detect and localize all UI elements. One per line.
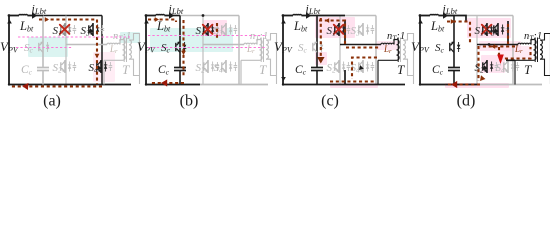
transformer T core (d): [535, 38, 537, 63]
transformer T primary winding (d): [534, 40, 537, 61]
label S1 (d): [475, 25, 484, 38]
label iLbt (d): [443, 2, 458, 17]
current arrow 4 (d): [480, 75, 485, 81]
transformer T primary winding (c): [397, 40, 400, 61]
wire bottom rail (a): [9, 84, 131, 86]
wire bridge left leg (d): [476, 16, 478, 85]
label S3 (c): [351, 25, 361, 38]
current arrow iLbt (c): [306, 12, 317, 18]
svg-text:(c): (c): [321, 93, 339, 110]
label Lr (d): [514, 44, 523, 55]
current path dashed segment 3 (c): [346, 46, 380, 48]
label iLbt (a): [32, 2, 47, 17]
current arrow 2 (c): [317, 57, 325, 64]
annotation magenta dashed 1 (a): [18, 36, 130, 38]
highlight region 3 (a): [93, 52, 115, 82]
current arrow 3 (b): [161, 79, 167, 86]
highlight region 1 (c): [315, 17, 355, 38]
wire bridge mid rail (b): [203, 44, 244, 46]
current arrow 1 (a): [45, 17, 49, 22]
transformer T secondary winding (a): [129, 40, 131, 59]
transistor S1 (b): [203, 23, 219, 36]
wire active segment 2 (c): [344, 20, 346, 45]
current arrow 2 (a): [95, 54, 100, 58]
transistor S2 (a): [61, 60, 76, 73]
current arrow 2 (d): [491, 44, 495, 49]
wire primary return (b): [241, 60, 260, 84]
wire bottom rail (b): [146, 84, 268, 86]
svg-text:(b): (b): [180, 93, 199, 110]
highlight region 2 (d): [479, 41, 521, 51]
transistor S3 (b): [222, 23, 237, 36]
label Sc (d): [435, 42, 445, 55]
svg-text:nT:1: nT:1: [250, 31, 268, 43]
capacitor Cc (c): [311, 68, 323, 71]
svg-text:T: T: [397, 62, 405, 77]
transformer T core (b): [261, 38, 263, 63]
wire active segment 1 (d): [447, 16, 466, 22]
transistor S4 (a): [97, 60, 112, 73]
transformer T secondary winding (d): [540, 40, 542, 59]
wire bridge left leg (b): [202, 16, 204, 85]
current path dashed segment 2 (a): [11, 85, 102, 87]
label nT:1 (b): [250, 31, 268, 43]
inductor Lr leakage (a): [107, 40, 123, 45]
wire bridge right leg (d): [512, 16, 514, 85]
label VPV (d): [411, 39, 430, 55]
transformer T secondary winding (b): [266, 40, 268, 59]
annotation magenta dashed 1 (b): [148, 35, 267, 37]
node input top-left (b): [145, 14, 148, 17]
wire bridge right leg (c): [375, 16, 377, 85]
highlight region 1 (b): [150, 28, 233, 52]
label VPV (a): [0, 39, 19, 55]
current path dashed segment 2 (b): [182, 20, 184, 78]
label Lr (c): [383, 44, 392, 55]
source VPV rail (d): [418, 16, 423, 86]
current arrow iLbt (b): [169, 12, 180, 18]
wire active segment 1 (c): [317, 15, 345, 17]
current path dashed segment 1 (d): [447, 22, 470, 45]
label Lbt (c): [293, 19, 308, 34]
switch Sc (b): [176, 41, 187, 52]
label S2 (c): [327, 62, 337, 75]
wire top rail (d): [454, 15, 513, 17]
label Sc (a): [24, 42, 34, 55]
transistor S1 (a): [60, 23, 76, 36]
highlight region 4 (d): [445, 83, 509, 88]
node junction (d): [488, 43, 491, 46]
wire bridge right leg (b): [238, 16, 240, 85]
label Cc (a): [21, 64, 33, 77]
wire top rail (b): [180, 15, 239, 17]
current path dashed segment 4 (c): [352, 58, 377, 80]
transformer T primary winding (a): [123, 40, 126, 61]
current path dashed segment 4 (d): [477, 46, 479, 81]
svg-text:T: T: [122, 62, 130, 77]
current arrow 1 (b): [155, 17, 159, 22]
label S2 (a): [53, 62, 63, 75]
label S4 (a): [89, 62, 99, 75]
current arrow 1 (c): [325, 18, 329, 23]
wire secondary leads (b): [266, 34, 277, 85]
label S2 (d): [475, 62, 485, 75]
current path dashed segment 1 (b): [148, 20, 176, 23]
label nT:1 (d): [524, 31, 542, 43]
current path dashed segment 1 (a): [39, 20, 97, 85]
wire primary return (c): [378, 60, 397, 84]
label nT:1 (c): [387, 31, 405, 43]
wire clamp branch (d): [453, 16, 455, 85]
label S4 (b): [214, 62, 224, 75]
highlight region 2 (a): [120, 32, 140, 43]
label S1 (c): [327, 25, 336, 38]
label Lbt (a): [19, 19, 34, 34]
caption (a): [43, 93, 61, 110]
label Cc (c): [295, 64, 307, 77]
transistor S3 (d): [494, 23, 509, 36]
current arrow red S2 branch (d): [497, 55, 504, 65]
label nT:1 (a): [113, 31, 131, 43]
svg-text:nT:1: nT:1: [387, 31, 405, 43]
switch Sc (d): [450, 41, 461, 52]
label Sc (b): [161, 42, 171, 55]
wire active segment 4 (d): [506, 59, 515, 61]
label S1 (a): [53, 25, 62, 38]
label S2 (b): [196, 62, 206, 75]
label T (d): [524, 62, 532, 77]
inductor Lbt (a): [9, 14, 32, 15]
node junction (b): [202, 14, 205, 17]
node input top-left (d): [419, 14, 422, 17]
transistor S3 (c): [359, 23, 374, 36]
transistor S2 (d): [483, 60, 498, 73]
source VPV rail (a): [7, 16, 12, 86]
wire active segment 1 (b): [145, 84, 200, 86]
current path dashed segment 1 (c): [319, 21, 345, 45]
label iLbt (b): [169, 2, 184, 17]
current path dashed segment 5 (c): [330, 80, 375, 82]
wire primary return (a): [104, 60, 123, 84]
current arrow iLbt (d): [443, 12, 454, 18]
wire bottom rail (c): [283, 84, 405, 86]
label S4 (c): [351, 62, 361, 75]
wire secondary leads (a): [129, 34, 140, 85]
highlight region 2 (b): [203, 20, 227, 36]
wire secondary leads (d): [540, 34, 550, 85]
label S3 (d): [486, 25, 496, 38]
inductor Lbt (b): [146, 14, 169, 15]
highlight region 2 (c): [315, 52, 327, 65]
switch Sc (a): [39, 41, 50, 52]
wire bridge left leg (a): [65, 16, 67, 85]
inductor Lbt (d): [420, 14, 443, 15]
wire clamp branch (a): [42, 16, 44, 85]
wire active segment 2 (d): [507, 21, 509, 45]
capacitor Cc (d): [448, 68, 460, 71]
svg-text:T: T: [524, 62, 532, 77]
label iLbt (c): [306, 2, 321, 17]
source VPV rail (c): [281, 16, 286, 86]
node input top-left (c): [282, 14, 285, 17]
current path dashed segment 5 (d): [499, 47, 531, 59]
label T (b): [259, 62, 267, 77]
inductor Lr leakage (c): [381, 40, 397, 45]
wire bridge mid rail (c): [340, 44, 381, 46]
transistor S2 (c): [335, 60, 350, 73]
caption (c): [321, 93, 339, 110]
wire bridge left leg (c): [339, 16, 341, 85]
label Cc (d): [432, 64, 444, 77]
current arrow 2 (b): [181, 51, 186, 55]
svg-text:(d): (d): [457, 93, 476, 110]
transformer T core (c): [398, 38, 400, 63]
transistor S4 (d): [504, 60, 519, 73]
current arrow 3 (d): [451, 81, 457, 88]
switch Sc (c): [313, 41, 324, 52]
wire active segment 3 (c): [344, 70, 346, 85]
highlight region 3 (c): [330, 83, 378, 88]
label S1 (b): [196, 25, 205, 38]
current path dashed segment 3 (d): [480, 45, 515, 47]
transistor S1 (c): [334, 23, 350, 36]
transformer T secondary winding (c): [403, 40, 405, 59]
wire bridge mid rail (a): [66, 44, 107, 46]
wire bridge right leg (a): [101, 16, 103, 85]
annotation magenta dashed 2 (a): [16, 47, 72, 49]
capacitor Cc (b): [174, 68, 186, 71]
svg-text:(a): (a): [43, 93, 61, 110]
label Sc (c): [298, 42, 308, 55]
label Cc (b): [158, 64, 170, 77]
transistor S2 (b): [204, 60, 219, 73]
annotation magenta dashed 2 (b): [148, 47, 267, 49]
caption (b): [180, 93, 199, 110]
wire primary return (d): [515, 60, 534, 84]
label VPV (b): [137, 39, 156, 55]
transformer T core (a): [124, 38, 126, 63]
capacitor Cc (a): [37, 68, 49, 71]
highlight region 1 (d): [467, 18, 511, 38]
caption (d): [457, 93, 476, 110]
wire bridge mid rail (d): [477, 44, 518, 46]
highlight region 5 (d): [499, 46, 532, 59]
transistor S4 (b): [222, 60, 237, 73]
transistor S3 (a): [89, 23, 104, 36]
wire top rail (a): [43, 15, 102, 17]
current path dashed segment 2 (c): [320, 18, 322, 64]
current path dashed segment 4 (b): [216, 23, 218, 38]
wire active segment 3 (d): [419, 84, 480, 86]
current arrow 3 (a): [22, 83, 28, 90]
inductor Lr leakage (b): [244, 40, 260, 45]
label VPV (c): [274, 39, 293, 55]
label T (a): [122, 62, 130, 77]
transformer T primary winding (b): [260, 40, 263, 61]
inductor Lr leakage (d): [518, 40, 534, 45]
transistor S4 (c): [359, 60, 374, 73]
label Lbt (b): [156, 19, 171, 34]
current arrow 1 (d): [451, 19, 455, 24]
wire secondary leads (c): [403, 34, 414, 85]
wire clamp branch (b): [179, 16, 181, 85]
current path dashed segment 3 (b): [150, 82, 184, 84]
wire top rail (c): [317, 15, 376, 17]
label S4 (d): [496, 62, 506, 75]
label Lr (a): [109, 44, 118, 55]
wire bottom rail (d): [420, 84, 542, 86]
svg-text:nT:1: nT:1: [524, 31, 542, 43]
transistor S1 (d): [482, 23, 498, 36]
current arrow iLbt (a): [32, 12, 43, 18]
wire clamp branch (c): [316, 16, 318, 85]
svg-text:T: T: [259, 62, 267, 77]
current path dashed segment 2 (d): [507, 24, 509, 44]
label Lr (b): [246, 44, 255, 55]
label S3 (a): [81, 25, 91, 38]
label Lbt (d): [430, 19, 445, 34]
highlight region 4 (c): [377, 41, 399, 50]
label S3 (b): [214, 25, 224, 38]
current path dashed segment 6 (d): [445, 83, 480, 85]
highlight region 3 (d): [481, 55, 505, 73]
label T (c): [397, 62, 405, 77]
highlight region 1 (a): [28, 37, 68, 57]
inductor Lbt (c): [283, 14, 306, 15]
node input top-left (a): [8, 14, 11, 17]
source VPV rail (b): [144, 16, 149, 86]
